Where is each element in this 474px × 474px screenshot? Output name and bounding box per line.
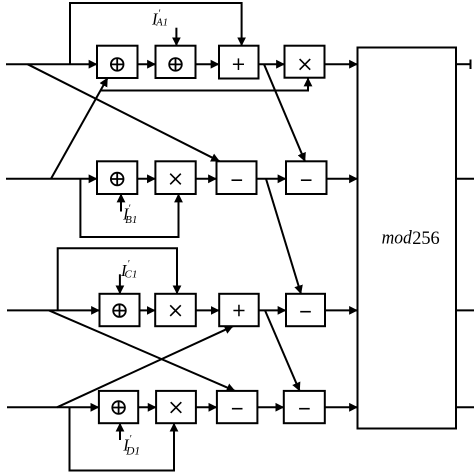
svg-text:256: 256 (412, 228, 440, 249)
svg-text:I′A1: I′A1 (151, 9, 168, 29)
svg-text:I′D1: I′D1 (122, 434, 140, 457)
svg-text:I′B1: I′B1 (122, 204, 137, 226)
svg-text:I′C1: I′C1 (120, 259, 137, 281)
svg-text:mod: mod (382, 228, 413, 249)
